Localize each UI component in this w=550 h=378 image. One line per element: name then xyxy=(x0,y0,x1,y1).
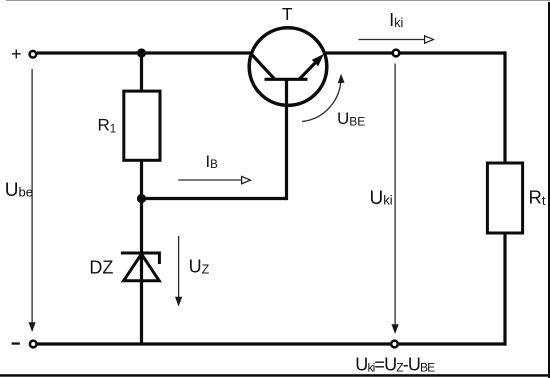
wire base link horizontal xyxy=(142,197,287,200)
arrow Uki (output voltage) xyxy=(392,64,399,335)
frame top xyxy=(6,0,550,2)
transistor emitter diagonal with arrow xyxy=(299,54,324,79)
arrow UZ (zener voltage) xyxy=(175,236,182,307)
arrow IB (base current) xyxy=(178,176,250,183)
arrow Ube (input voltage) xyxy=(29,69,36,332)
terminal - (open circle) xyxy=(30,341,37,348)
arrow Iki (output current) xyxy=(359,36,434,43)
wire right branch upper xyxy=(503,51,506,163)
junction dot top (R1 / top bus) xyxy=(137,48,146,57)
frame bottom xyxy=(0,374,550,377)
wire R1 bottom lead through zener to bottom bus xyxy=(140,161,143,345)
zener diode DZ xyxy=(121,253,159,281)
transistor collector diagonal xyxy=(251,53,275,79)
node output bottom (open circle) xyxy=(391,341,398,348)
wire R1 top lead xyxy=(140,53,143,91)
wire right branch lower xyxy=(503,233,506,346)
node output top (open circle) xyxy=(393,50,400,57)
svg-text:+: + xyxy=(11,43,22,64)
resistor R1 xyxy=(124,91,160,160)
wire top bus: transistor to right corner xyxy=(325,51,505,54)
transistor Q1 circle xyxy=(249,28,327,106)
frame right xyxy=(548,2,550,378)
wire top bus: + terminal to transistor xyxy=(37,51,251,54)
arrow UBE curved (base-emitter voltage) xyxy=(302,74,345,122)
label minus xyxy=(12,342,20,344)
wire bottom bus xyxy=(38,342,506,345)
wire base lead vertical xyxy=(285,79,288,200)
junction dot base node xyxy=(137,194,146,203)
transistor base bar xyxy=(265,78,308,81)
terminal + (open circle) xyxy=(30,51,37,58)
svg-text:T: T xyxy=(282,4,293,24)
resistor Rt xyxy=(487,163,522,233)
svg-text:DZ: DZ xyxy=(89,258,113,278)
